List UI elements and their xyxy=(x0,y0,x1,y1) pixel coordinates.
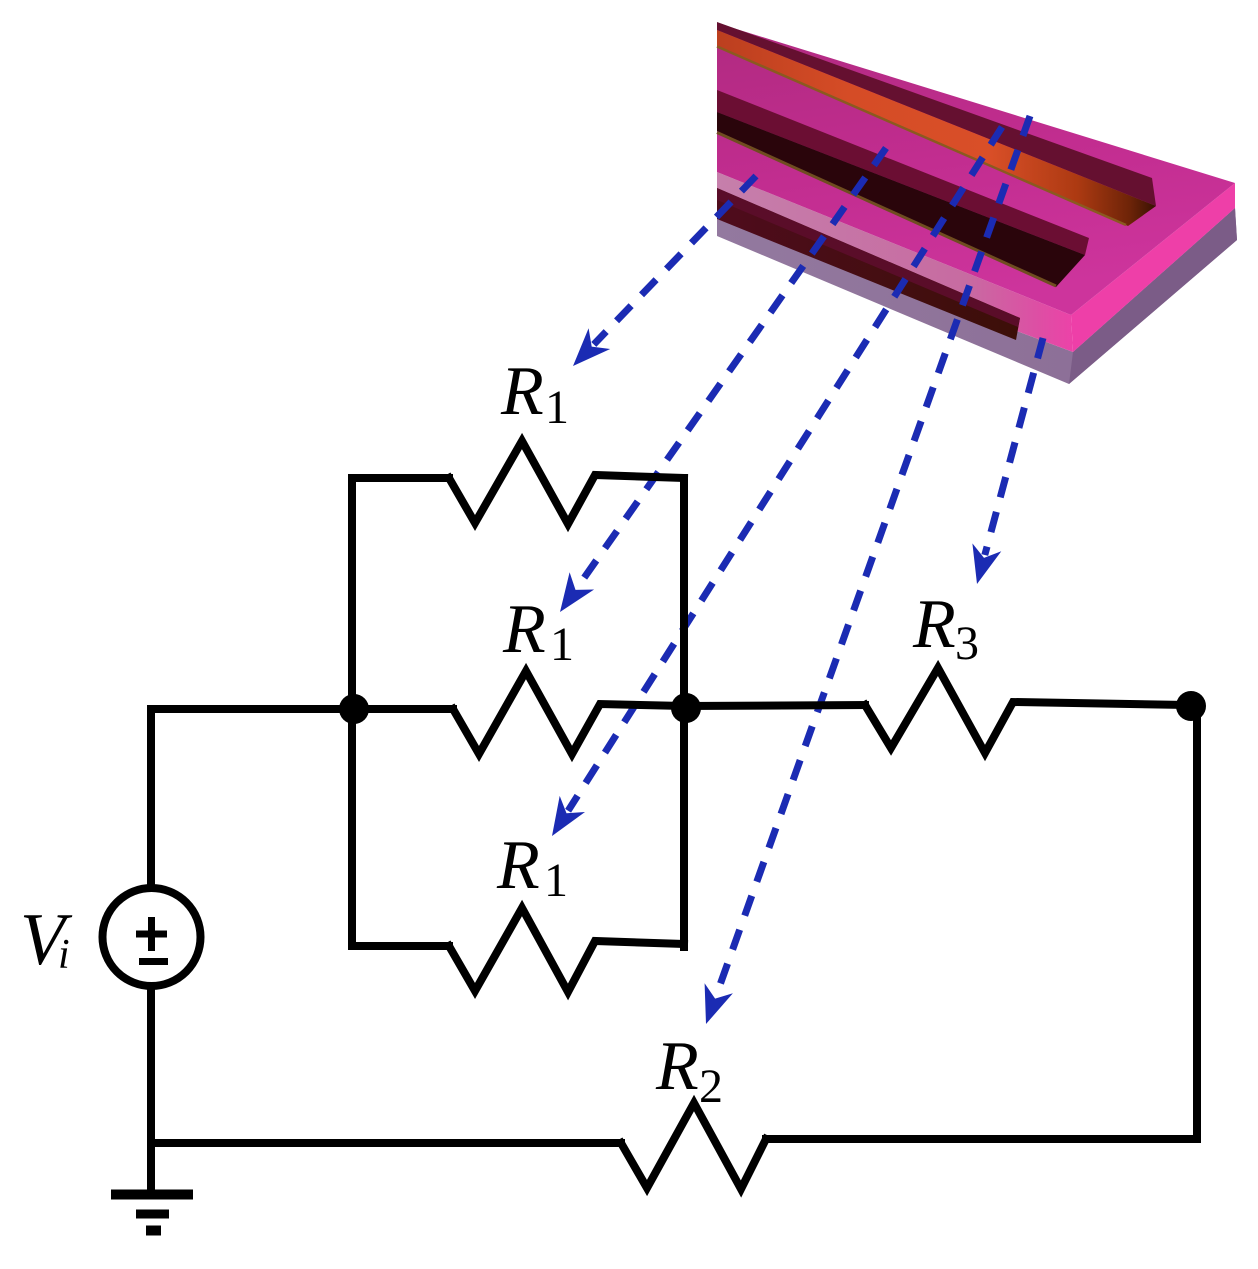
svg-text:R: R xyxy=(500,353,544,430)
resistor R1 (middle) zigzag xyxy=(453,671,686,754)
groove G2 floor (near black) xyxy=(717,112,1085,287)
arrow to R2: dashed shaft xyxy=(716,116,1030,996)
resistor R2 zigzag xyxy=(621,1103,766,1189)
svg-text:R: R xyxy=(912,586,956,663)
red conductor bar in groove G1 xyxy=(717,30,1156,226)
arrow to R3: dashed shaft xyxy=(985,338,1043,555)
wire: node2 to R3 xyxy=(686,705,865,706)
ground bars xyxy=(111,1195,193,1231)
svg-text:i: i xyxy=(58,932,70,978)
arrow to R2: head xyxy=(705,983,733,1024)
resistor R1 (bottom) zigzag xyxy=(449,908,684,992)
arrow to R1 (middle): dashed shaft xyxy=(577,148,886,588)
svg-text:1: 1 xyxy=(544,854,568,907)
node C (junction dot, right end) xyxy=(1176,691,1206,721)
groove G4 cut in near face (dark trench) xyxy=(717,188,1020,340)
wire: R2 to bottom right corner xyxy=(766,1135,1197,1143)
wire: parallel-box right vertical xyxy=(680,478,688,947)
wire: below Vi to bottom wire xyxy=(147,986,155,1143)
resistor R1 (top) zigzag xyxy=(449,441,684,524)
arrow to R1 (top): head xyxy=(573,328,610,366)
groove G2 bottom edge highlight xyxy=(717,133,1056,287)
arrow to R1 (bottom): head xyxy=(552,796,585,836)
groove G4 maroon upper wall xyxy=(717,188,1020,327)
svg-text:2: 2 xyxy=(699,1060,723,1113)
svg-text:R: R xyxy=(502,591,546,668)
svg-text:R: R xyxy=(655,1028,699,1105)
ground stem xyxy=(147,1143,155,1195)
wire: bottom branch left xyxy=(352,942,449,950)
device top-slab near side face (dusty pink, brighter toward corner) xyxy=(717,172,1073,352)
voltage source Vi circle xyxy=(103,888,201,986)
wire: parallel-box left vertical xyxy=(348,478,356,946)
brown highlight under red bar xyxy=(717,47,1126,226)
groove G2 far wall (dark maroon) xyxy=(717,90,1089,255)
node B (junction dot, right of parallel box) xyxy=(671,693,701,723)
arrow to R1 (middle): head xyxy=(560,572,594,612)
device top face (magenta) xyxy=(717,23,1235,315)
arrow to R1 (bottom): dashed shaft xyxy=(568,127,1002,811)
groove G1 far wall (dark maroon stripe) xyxy=(717,22,1156,206)
node A (junction dot, left of parallel box) xyxy=(339,694,369,724)
resistor R3 zigzag xyxy=(865,668,1191,753)
wire: main horizontal, left segment xyxy=(151,705,453,713)
arrow to R1 (top): dashed shaft xyxy=(594,176,756,344)
plus-minus symbol inside Vi xyxy=(136,917,168,962)
svg-text:1: 1 xyxy=(550,618,574,671)
svg-text:R: R xyxy=(496,827,540,904)
svg-text:1: 1 xyxy=(545,381,569,434)
svg-text:3: 3 xyxy=(955,617,979,670)
device top-slab right end face (bright pink) xyxy=(1071,183,1235,352)
wire: left vertical from main wire down to Vi xyxy=(147,709,155,888)
device substrate (purple base layer, near + end faces) xyxy=(717,208,1237,384)
wire: top branch left xyxy=(352,474,449,482)
wire: right vertical xyxy=(1193,705,1201,1139)
wire: bottom horizontal, left segment xyxy=(151,1139,621,1147)
arrow to R3: head xyxy=(972,543,1001,584)
